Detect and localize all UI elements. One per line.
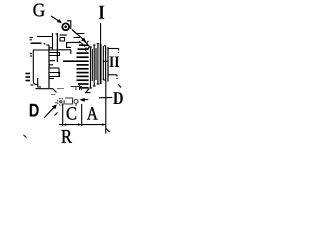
hatch diagonal 2: [83, 40, 89, 46]
regulator dash: [31, 42, 42, 44]
regulator top line: [37, 36, 53, 38]
rear housing lug: [33, 78, 37, 85]
pulley groove line 3: [93, 46, 95, 87]
step line top2: [74, 37, 81, 39]
top edge right of joint: [57, 49, 71, 51]
ladder bar d: [49, 67, 59, 69]
step line top1: [76, 33, 85, 35]
extension line down: [105, 80, 107, 134]
pulley groove line 1: [90, 48, 92, 89]
pulley groove cap 5: [97, 43, 100, 45]
hatch diagonal 1: [79, 41, 85, 47]
terminal tab: [67, 21, 71, 29]
rear housing bottom edge: [36, 88, 54, 90]
inner vertical: [48, 45, 50, 88]
label II: [109, 57, 119, 67]
connector dash 2: [26, 76, 31, 78]
lug bar: [37, 78, 39, 87]
second ear circle: [74, 100, 78, 104]
label I: [99, 6, 104, 19]
regulator right vertical: [52, 33, 54, 50]
gray dash under joint: [57, 88, 64, 90]
pulley groove foot 3: [93, 85, 96, 87]
faint ear bottom dash 2: [62, 103, 66, 105]
II bracket top corner dash: [118, 49, 120, 54]
II bracket bottom: [108, 74, 117, 76]
regulator dot: [44, 43, 46, 45]
rear housing left edge: [32, 50, 34, 78]
label R: [61, 130, 72, 143]
terminal inner dot: [64, 26, 67, 29]
small bracket right of joint: [67, 43, 71, 48]
bottom gray dash: [51, 94, 56, 96]
ear bracket: [65, 98, 73, 104]
lug foot: [38, 86, 41, 88]
dim arrowhead left: [63, 123, 66, 125]
pulley groove foot 5: [97, 83, 100, 85]
label D right: [113, 92, 123, 104]
pulley groove line 4: [95, 48, 97, 80]
pulley right face inner: [105, 46, 107, 81]
II corner diagonal dash: [118, 84, 121, 88]
ladder stub c: [49, 64, 53, 66]
lug left stub: [31, 84, 34, 86]
small dash left 2: [30, 39, 33, 41]
D right leader arrowhead: [79, 98, 84, 102]
pulley groove line 6: [102, 46, 104, 80]
small dash left of regulator: [30, 37, 34, 39]
front housing bottom diagonal: [86, 89, 90, 94]
shaft top bracket: [71, 87, 82, 91]
pulley groove foot 1: [89, 87, 92, 89]
bottom step diagonal: [53, 89, 57, 93]
ladder double bar 2: [49, 73, 60, 77]
D right leader tail: [85, 99, 89, 101]
label A: [87, 107, 98, 119]
D right leader dash at label: [99, 96, 112, 98]
mounting ear hole (gray): [55, 98, 78, 106]
main joint vertical: [56, 33, 58, 62]
fins hatch squiggle 1: [87, 41, 89, 49]
connector dash 1: [26, 73, 31, 75]
dim arrowhead right: [102, 123, 106, 125]
dash right of joint: [60, 38, 65, 42]
stray dash bottom left: [24, 135, 27, 138]
rear housing top edge: [33, 49, 58, 51]
tiny dashes at housing top left: [30, 53, 32, 55]
inner vertical top cap: [47, 44, 50, 46]
label C: [67, 107, 76, 119]
pulley right face outer: [107, 47, 109, 82]
step line top3: [71, 41, 81, 43]
pulley step bottom: [103, 79, 105, 81]
tiny diagonal above R: [55, 113, 58, 116]
ladder stub b: [49, 60, 55, 62]
pulley cap right: [104, 45, 106, 47]
leader arrow down-right from terminal: [72, 30, 84, 40]
pulley groove line 2: [91, 49, 93, 81]
fins hatch squiggle 2: [85, 48, 86, 52]
front housing bottom vertical: [79, 84, 81, 90]
top line right of joint: [60, 34, 68, 36]
front housing bottom dash: [85, 92, 91, 94]
faint ear bottom dash 1: [55, 102, 59, 104]
fin stripes: [63, 45, 89, 88]
dimension I line through pulley: [100, 23, 102, 44]
ladder double bar 1: [49, 53, 60, 56]
II bracket top: [108, 48, 119, 50]
connector dash 3: [26, 80, 31, 82]
C extension bar: [62, 104, 64, 126]
terminal circle: [62, 23, 69, 30]
pulley groove cap 1: [89, 46, 92, 48]
second ear stem: [75, 104, 77, 107]
tiny dash above joint: [56, 33, 59, 35]
label D left: [30, 104, 39, 117]
ladder stub e: [49, 78, 54, 80]
tick left of II: [104, 60, 108, 62]
I line thick part in pulley: [100, 44, 102, 84]
leader arrow from G to terminal: [51, 16, 59, 21]
D left leader: [44, 107, 55, 118]
dimension line under C and A: [59, 124, 106, 126]
C/A middle bar: [81, 104, 83, 126]
II bracket bottom corner dash: [116, 75, 118, 80]
short vertical right: [58, 68, 60, 77]
label G: [33, 4, 44, 17]
diagonal dash at right end: [106, 128, 110, 132]
pulley groove line 5: [97, 44, 99, 84]
short vertical below top edge: [70, 50, 72, 54]
ladder stub a: [49, 47, 53, 49]
pulley groove cap 3: [93, 44, 96, 46]
dim arrowhead middle: [78, 123, 82, 125]
